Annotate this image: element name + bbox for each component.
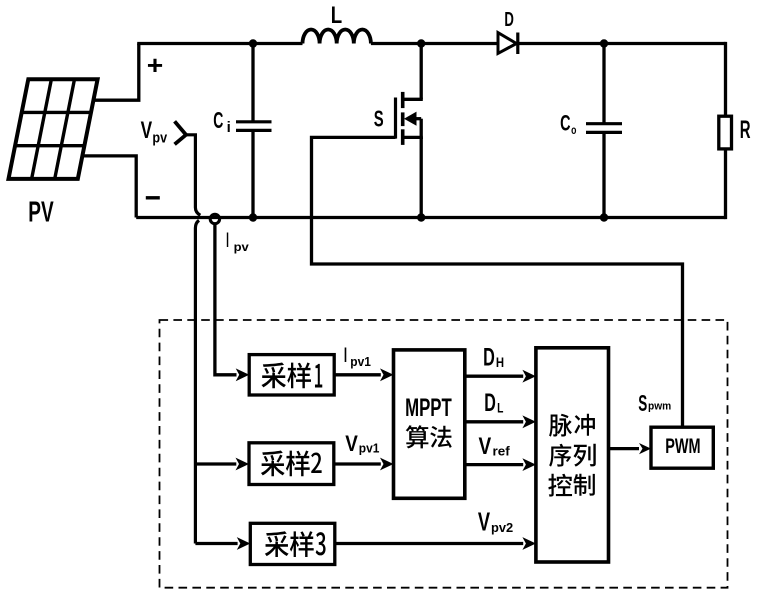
label Ipv	[226, 227, 249, 254]
svg-text:C: C	[560, 110, 570, 135]
wire PV negative lead	[82, 156, 136, 218]
label −	[146, 196, 160, 199]
label Ci	[213, 107, 230, 136]
svg-text:pv2: pv2	[491, 521, 513, 535]
probe Vpv	[175, 121, 186, 144]
resistor R	[719, 42, 732, 219]
capacitor Ci	[236, 42, 272, 218]
node Ipv	[210, 214, 219, 223]
svg-text:pv1: pv1	[359, 441, 380, 456]
wire PV positive lead	[94, 44, 139, 101]
svg-text:pv: pv	[234, 240, 249, 254]
svg-text:pwm: pwm	[648, 401, 671, 413]
capacitor Co	[586, 42, 622, 218]
label Spwm	[638, 390, 671, 416]
block PWM	[651, 427, 713, 468]
svg-text:L: L	[331, 2, 342, 29]
svg-text:pv: pv	[152, 130, 167, 147]
svg-text:V: V	[141, 117, 153, 144]
wire Vref	[465, 458, 536, 471]
wire DH	[465, 370, 536, 383]
svg-text:D: D	[483, 344, 495, 372]
label Ipv1	[344, 344, 371, 369]
transistor S (MOSFET)	[396, 42, 423, 218]
label R	[740, 116, 751, 144]
wire bottom rail	[136, 216, 725, 219]
svg-text:L: L	[497, 400, 503, 415]
label L	[331, 2, 342, 29]
label Co	[560, 110, 576, 137]
controller boundary (dashed)	[160, 320, 728, 588]
svg-text:V: V	[345, 431, 358, 456]
svg-text:I: I	[226, 227, 229, 252]
junction Co bottom	[600, 213, 608, 221]
svg-text:PV: PV	[28, 196, 53, 228]
svg-text:R: R	[740, 116, 751, 144]
wire top rail left	[137, 42, 302, 45]
label Vpv2	[478, 508, 513, 536]
label DH	[483, 344, 504, 372]
svg-text:PWM: PWM	[665, 433, 700, 458]
junction Ci top	[249, 39, 257, 47]
wire DL	[465, 415, 536, 428]
block 脉冲序列控制	[536, 348, 609, 562]
svg-text:D: D	[484, 389, 496, 417]
svg-text:MPPT: MPPT	[405, 394, 452, 422]
wire 脉冲序列控制 to PWM	[609, 443, 652, 454]
solar panel PV	[9, 79, 98, 179]
svg-text:V: V	[479, 434, 492, 460]
wire Vpv sense to 采样2	[195, 458, 249, 471]
svg-text:+: +	[147, 52, 164, 80]
svg-text:o: o	[571, 125, 576, 137]
svg-text:ref: ref	[493, 444, 511, 458]
label D	[504, 8, 514, 31]
block 采样3	[250, 523, 334, 564]
svg-text:V: V	[478, 508, 491, 536]
label S	[374, 106, 384, 132]
svg-text:I: I	[344, 344, 347, 367]
block 采样2	[249, 443, 334, 485]
svg-text:S: S	[374, 106, 384, 132]
junction Ci bottom	[249, 213, 257, 221]
svg-text:pv1: pv1	[350, 354, 371, 369]
junction Co top	[600, 39, 608, 47]
label PV	[28, 196, 53, 228]
block MPPT 算法	[394, 350, 465, 498]
inductor L	[303, 29, 371, 43]
label Vpv1	[345, 431, 379, 456]
wire Ipv sense to 采样1	[215, 224, 249, 382]
junction drain top	[417, 39, 425, 47]
block 采样1	[249, 355, 334, 395]
wire Vpv sense	[186, 135, 200, 544]
label Vpv	[141, 117, 168, 147]
svg-text:i: i	[227, 119, 231, 136]
label DL	[484, 389, 503, 417]
wire top rail middle	[371, 42, 498, 45]
wire Vpv sense to 采样3	[195, 537, 250, 550]
svg-text:C: C	[213, 107, 223, 133]
junction source bottom	[417, 213, 425, 221]
wire 采样2 to MPPT (Vpv1)	[334, 458, 394, 471]
label Vref	[479, 434, 511, 460]
diode D	[498, 33, 518, 55]
svg-text:H: H	[496, 355, 504, 370]
label +	[147, 52, 164, 80]
svg-text:D: D	[504, 8, 514, 31]
wire 采样1 to MPPT (Ipv1)	[334, 368, 393, 381]
wire 采样3 to 脉冲序列控制 (Vpv2)	[335, 537, 536, 550]
svg-text:S: S	[638, 390, 647, 416]
wire top rail right	[518, 42, 726, 45]
wire gate drive Spwm net	[312, 137, 683, 427]
